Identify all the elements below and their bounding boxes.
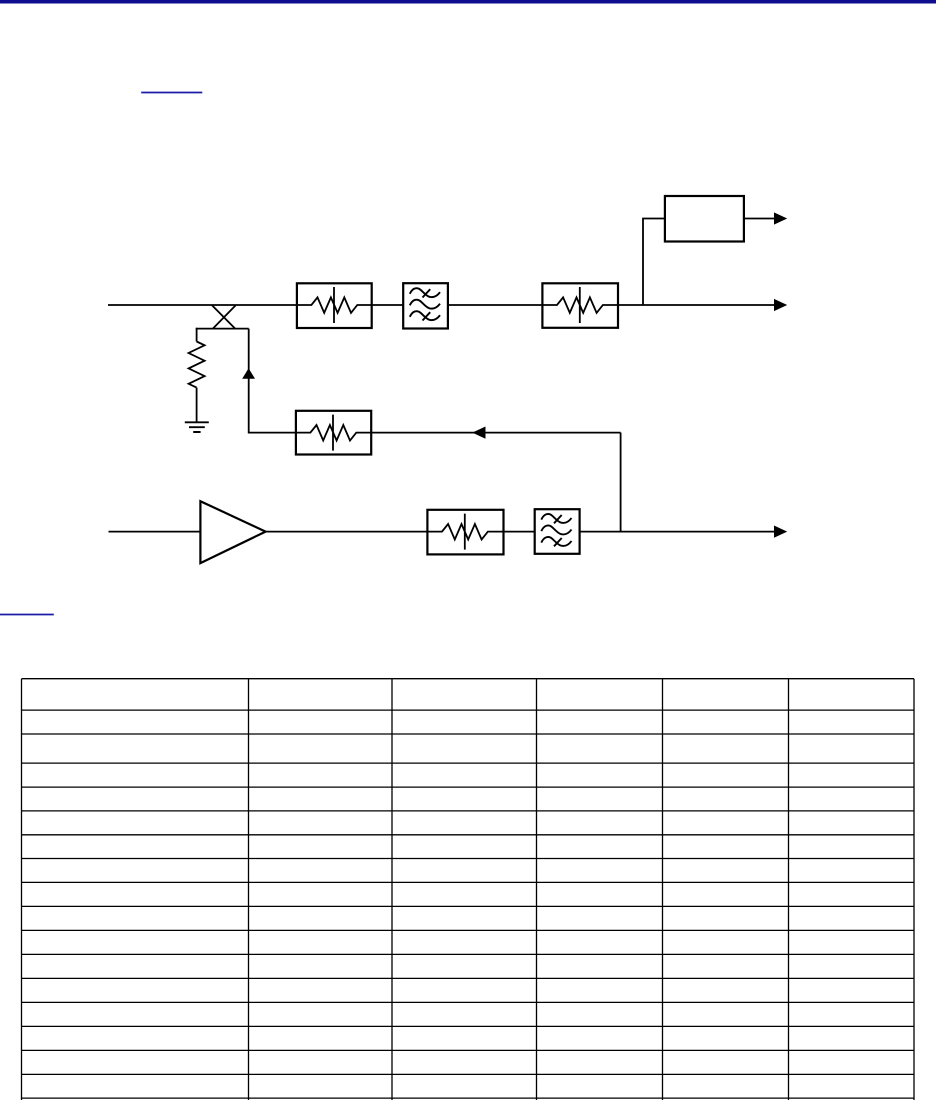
filter FL2 symbol (three waves, outer ones crossed) <box>541 514 571 546</box>
wire: resistor top lead <box>196 328 198 342</box>
attenuator AT3 box (feedback path) <box>296 411 371 455</box>
wire: resistor bottom lead <box>196 388 198 422</box>
wire: feedback line (right to left) <box>372 432 621 434</box>
hyperlink underline (figure reference) <box>141 92 202 94</box>
filter FL1 symbol (three waves, outer ones crossed) <box>410 288 440 320</box>
wire: branch riser to top coupler box <box>643 219 666 306</box>
arrowhead: up arrow on riser <box>242 368 255 379</box>
ground <box>185 422 209 432</box>
attenuator AT2 symbol <box>542 287 618 323</box>
filter FL2 box <box>535 509 580 554</box>
arrowhead: RF main output <box>774 299 787 311</box>
attenuator AT1 box <box>297 283 372 328</box>
arrowhead: LO output <box>774 526 787 538</box>
attenuator AT4 box <box>427 510 503 555</box>
attenuator AT1 symbol <box>297 287 372 323</box>
attenuator AT3 symbol <box>296 415 371 451</box>
switch X1 (crossed-wire symbol on main line) <box>212 305 236 328</box>
wire: top box output <box>744 218 775 220</box>
amplifier A1 <box>200 501 265 563</box>
wire: amplifier output line <box>266 531 775 533</box>
filter FL1 box <box>403 283 448 328</box>
wire: riser from switch down to feedback line <box>249 329 297 433</box>
arrowhead: feedback direction (points left) <box>472 427 485 439</box>
resistor R1 (termination) <box>189 342 205 388</box>
attenuator AT2 box <box>542 283 618 328</box>
wire: LO input line <box>109 531 202 533</box>
attenuator AT4 symbol <box>427 514 503 550</box>
wire: tap line below switch <box>196 328 249 330</box>
wire: feedback riser from bottom line <box>620 433 622 532</box>
page header rule <box>0 0 936 4</box>
coupler/detector box U1 <box>665 196 744 242</box>
hyperlink underline (table reference, clipped at left margin) <box>0 614 54 616</box>
table grid <box>22 679 915 1100</box>
wire: main RF through line <box>108 304 775 306</box>
arrowhead: top box output <box>774 212 787 224</box>
